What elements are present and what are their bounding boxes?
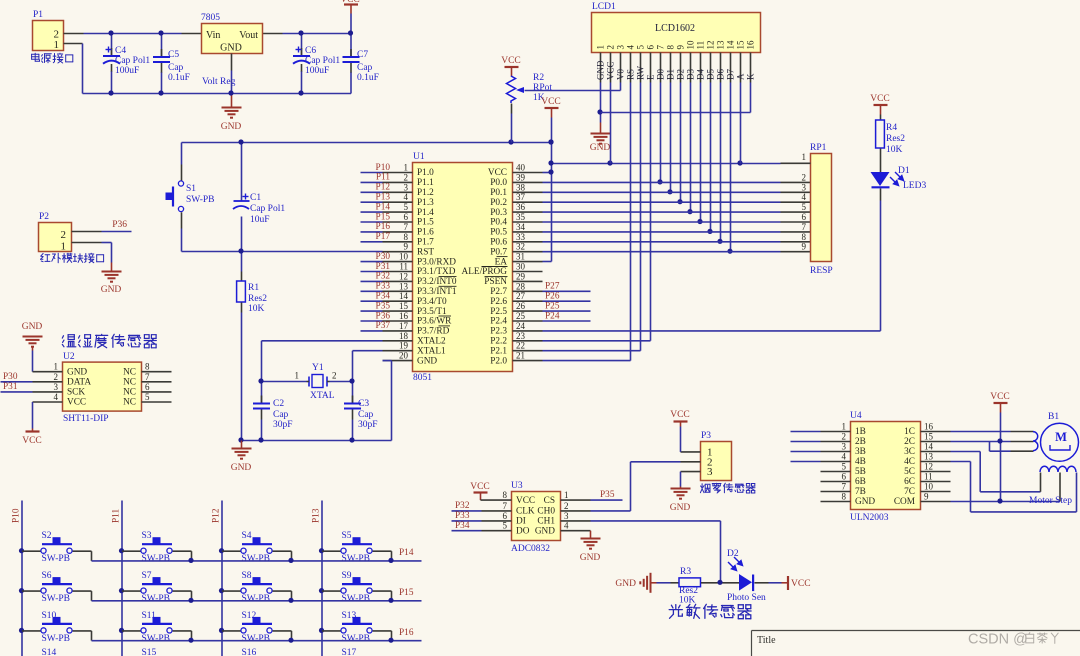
svg-text:P27: P27 (545, 282, 560, 292)
svg-text:5: 5 (802, 202, 807, 212)
svg-text:S1: S1 (186, 184, 196, 194)
svg-text:D0: D0 (656, 69, 666, 80)
svg-text:P2.1: P2.1 (490, 346, 507, 356)
svg-text:P2.3: P2.3 (490, 327, 507, 337)
svg-text:ULN2003: ULN2003 (850, 513, 889, 523)
svg-text:LCD1: LCD1 (592, 2, 616, 12)
svg-text:D1: D1 (898, 166, 910, 176)
svg-text:P30: P30 (3, 372, 18, 382)
svg-text:10: 10 (399, 252, 409, 262)
svg-text:P1.0: P1.0 (417, 168, 434, 178)
svg-text:P10: P10 (376, 163, 391, 173)
svg-text:DO: DO (516, 526, 530, 536)
svg-text:2C: 2C (904, 437, 915, 447)
svg-text:U4: U4 (850, 411, 862, 421)
svg-text:SW-PB: SW-PB (242, 594, 271, 604)
svg-text:P2.7: P2.7 (490, 287, 507, 297)
svg-text:C4: C4 (115, 46, 126, 56)
svg-text:37: 37 (516, 192, 526, 202)
svg-text:P34: P34 (455, 521, 470, 531)
svg-text:Cap: Cap (273, 410, 289, 420)
svg-text:P1.7: P1.7 (417, 238, 434, 248)
svg-text:P3.7/RD: P3.7/RD (417, 327, 450, 337)
svg-text:P2: P2 (39, 212, 49, 222)
svg-text:20: 20 (399, 351, 409, 361)
svg-text:10: 10 (685, 40, 695, 50)
svg-text:P10: P10 (12, 508, 22, 523)
svg-text:P1.5: P1.5 (417, 218, 434, 228)
svg-text:P13: P13 (376, 193, 391, 203)
svg-text:SW-PB: SW-PB (42, 634, 71, 644)
svg-text:Cap Pol1: Cap Pol1 (250, 204, 285, 214)
svg-text:P24: P24 (545, 311, 560, 321)
svg-text:3: 3 (842, 442, 847, 452)
svg-text:1: 1 (595, 45, 605, 50)
svg-text:D2: D2 (676, 69, 686, 80)
svg-text:5C: 5C (904, 467, 915, 477)
svg-text:VCC: VCC (470, 482, 490, 492)
svg-text:Res2: Res2 (248, 294, 267, 304)
svg-text:1: 1 (54, 39, 60, 51)
svg-text:P26: P26 (545, 292, 560, 302)
svg-text:P31: P31 (3, 382, 18, 392)
svg-text:P1.4: P1.4 (417, 208, 434, 218)
svg-text:13: 13 (924, 452, 934, 462)
svg-text:GND: GND (22, 322, 43, 332)
svg-text:4B: 4B (855, 457, 866, 467)
svg-text:NC: NC (123, 367, 136, 377)
svg-text:Photo Sen: Photo Sen (727, 593, 766, 603)
svg-text:GND: GND (670, 503, 691, 513)
svg-text:15: 15 (399, 301, 409, 311)
svg-text:P2.2: P2.2 (490, 337, 507, 347)
svg-text:7B: 7B (855, 487, 866, 497)
svg-text:10K: 10K (886, 145, 903, 155)
svg-text:P35: P35 (376, 301, 391, 311)
svg-text:P2.5: P2.5 (490, 307, 507, 317)
svg-text:36: 36 (516, 202, 526, 212)
svg-text:P36: P36 (376, 311, 391, 321)
svg-text:4: 4 (564, 521, 569, 531)
svg-text:K: K (746, 73, 756, 80)
svg-text:P3.6/WR: P3.6/WR (417, 317, 452, 327)
svg-text:28: 28 (516, 281, 526, 291)
svg-text:ALE/PROG: ALE/PROG (462, 267, 508, 277)
svg-text:S14: S14 (42, 648, 57, 656)
svg-text:P2.0: P2.0 (490, 356, 507, 366)
svg-text:7805: 7805 (201, 13, 220, 23)
svg-text:Vin: Vin (206, 30, 220, 41)
svg-text:VCC: VCC (990, 392, 1010, 402)
svg-text:3: 3 (802, 182, 807, 192)
svg-text:19: 19 (399, 341, 409, 351)
svg-text:VCC: VCC (488, 168, 507, 178)
svg-text:26: 26 (516, 301, 526, 311)
svg-text:LED3: LED3 (903, 181, 926, 191)
svg-text:VCC: VCC (791, 579, 811, 589)
svg-text:P11: P11 (112, 509, 122, 523)
svg-text:P0.0: P0.0 (490, 178, 507, 188)
svg-text:VCC: VCC (670, 410, 690, 420)
svg-text:GND: GND (615, 579, 636, 589)
svg-text:SW-PB: SW-PB (342, 554, 371, 564)
svg-text:7: 7 (145, 372, 150, 382)
svg-text:Volt Reg: Volt Reg (202, 77, 236, 87)
svg-text:S9: S9 (342, 571, 352, 581)
svg-text:7C: 7C (904, 487, 915, 497)
svg-text:2B: 2B (855, 437, 866, 447)
svg-text:30pF: 30pF (273, 420, 293, 430)
svg-text:38: 38 (516, 182, 526, 192)
svg-text:S2: S2 (42, 531, 52, 541)
svg-text:C3: C3 (358, 399, 369, 409)
svg-text:R2: R2 (533, 73, 544, 83)
svg-text:GND: GND (417, 356, 437, 366)
svg-text:VCC: VCC (606, 61, 616, 80)
svg-text:14: 14 (399, 291, 409, 301)
svg-text:18: 18 (399, 331, 409, 341)
svg-text:9: 9 (675, 45, 685, 50)
svg-text:2: 2 (54, 372, 59, 382)
svg-text:RST: RST (417, 247, 434, 257)
svg-text:GND: GND (101, 285, 122, 295)
svg-text:P12: P12 (376, 183, 391, 193)
svg-text:P0.6: P0.6 (490, 238, 507, 248)
svg-text:5B: 5B (855, 467, 866, 477)
svg-text:11: 11 (399, 262, 408, 272)
svg-text:3C: 3C (904, 447, 915, 457)
svg-text:31: 31 (516, 252, 525, 262)
svg-text:2: 2 (61, 229, 67, 241)
svg-text:B1: B1 (1048, 412, 1059, 422)
svg-text:P0.5: P0.5 (490, 228, 507, 238)
svg-text:27: 27 (516, 291, 526, 301)
svg-text:RW: RW (636, 65, 646, 80)
svg-text:Cap: Cap (168, 63, 184, 73)
svg-text:1B: 1B (855, 427, 866, 437)
svg-text:U2: U2 (63, 352, 75, 362)
svg-text:C7: C7 (357, 50, 368, 60)
svg-text:7: 7 (655, 45, 665, 50)
svg-text:13: 13 (399, 281, 409, 291)
svg-text:6: 6 (503, 511, 508, 521)
svg-text:Vout: Vout (239, 30, 258, 41)
svg-text:P17: P17 (376, 232, 391, 242)
svg-text:Title: Title (757, 635, 776, 646)
svg-text:S8: S8 (242, 571, 252, 581)
svg-text:2: 2 (842, 432, 847, 442)
svg-text:C6: C6 (305, 46, 316, 56)
svg-text:SCK: SCK (67, 388, 85, 398)
svg-text:9: 9 (404, 242, 409, 252)
svg-text:SW-PB: SW-PB (342, 594, 371, 604)
svg-text:8: 8 (404, 232, 409, 242)
svg-text:NC: NC (123, 388, 136, 398)
svg-text:P14: P14 (376, 202, 391, 212)
svg-text:8: 8 (665, 45, 675, 50)
svg-text:GND: GND (231, 463, 252, 473)
svg-text:C2: C2 (273, 399, 284, 409)
svg-text:6: 6 (802, 212, 807, 222)
svg-text:P3.0/RXD: P3.0/RXD (417, 257, 456, 267)
svg-text:SW-PB: SW-PB (242, 554, 271, 564)
svg-text:1: 1 (295, 371, 300, 381)
svg-text:P0.2: P0.2 (490, 198, 507, 208)
svg-text:7: 7 (503, 501, 508, 511)
svg-text:V0: V0 (616, 69, 626, 80)
svg-text:22: 22 (516, 341, 525, 351)
svg-text:39: 39 (516, 172, 526, 182)
svg-text:P31: P31 (376, 262, 391, 272)
svg-text:P1: P1 (33, 10, 43, 20)
svg-text:25: 25 (516, 311, 526, 321)
svg-text:CLK: CLK (516, 507, 535, 517)
svg-text:R1: R1 (248, 283, 259, 293)
svg-text:SW-PB: SW-PB (42, 554, 71, 564)
svg-text:P3.2/INT0: P3.2/INT0 (417, 277, 457, 287)
svg-text:DI: DI (516, 517, 526, 527)
svg-text:NC: NC (123, 398, 136, 408)
svg-text:3: 3 (564, 511, 569, 521)
svg-text:SW-PB: SW-PB (142, 554, 171, 564)
svg-text:CH0: CH0 (537, 507, 555, 517)
svg-text:RP1: RP1 (810, 143, 827, 153)
svg-text:14: 14 (924, 442, 934, 452)
svg-text:10K: 10K (248, 304, 265, 314)
svg-text:E: E (646, 74, 656, 80)
svg-text:30pF: 30pF (358, 420, 378, 430)
svg-text:GND: GND (221, 122, 242, 132)
svg-text:8051: 8051 (413, 373, 432, 383)
svg-text:4: 4 (404, 192, 409, 202)
svg-text:P3.3/INT1: P3.3/INT1 (417, 287, 457, 297)
svg-text:GND: GND (67, 367, 87, 377)
svg-text:23: 23 (516, 331, 526, 341)
svg-text:6: 6 (645, 45, 655, 50)
svg-text:29: 29 (516, 271, 526, 281)
svg-text:U3: U3 (511, 481, 523, 491)
svg-text:12: 12 (705, 41, 715, 50)
svg-text:VCC: VCC (870, 94, 890, 104)
svg-text:RS: RS (626, 69, 636, 80)
svg-text:3B: 3B (855, 447, 866, 457)
svg-text:8: 8 (503, 490, 508, 500)
svg-text:P35: P35 (600, 490, 615, 500)
svg-text:D5: D5 (706, 69, 716, 80)
svg-text:RESP: RESP (810, 266, 833, 276)
svg-text:5: 5 (145, 392, 150, 402)
svg-text:P3: P3 (701, 431, 711, 441)
svg-text:P0.3: P0.3 (490, 208, 507, 218)
svg-text:P37: P37 (376, 321, 391, 331)
svg-text:M: M (1055, 430, 1067, 444)
svg-text:P2.6: P2.6 (490, 297, 507, 307)
svg-text:24: 24 (516, 321, 526, 331)
svg-text:VCC: VCC (541, 97, 561, 107)
svg-text:2: 2 (605, 45, 615, 50)
svg-text:Res2: Res2 (679, 586, 698, 596)
svg-text:4: 4 (625, 45, 635, 50)
svg-text:12: 12 (924, 462, 933, 472)
svg-text:D7: D7 (726, 69, 736, 80)
svg-text:34: 34 (516, 222, 526, 232)
svg-text:VCC: VCC (67, 398, 86, 408)
svg-text:10uF: 10uF (250, 215, 270, 225)
svg-text:NC: NC (123, 378, 136, 388)
svg-text:P30: P30 (376, 252, 391, 262)
svg-text:4: 4 (54, 392, 59, 402)
svg-text:GND: GND (590, 143, 611, 153)
svg-text:P3.5/T1: P3.5/T1 (417, 307, 447, 317)
svg-text:Cap Pol1: Cap Pol1 (305, 56, 340, 66)
svg-text:6: 6 (404, 212, 409, 222)
svg-text:COM: COM (894, 497, 915, 507)
svg-text:3: 3 (707, 466, 713, 478)
svg-text:XTAL: XTAL (310, 391, 335, 401)
svg-text:S3: S3 (142, 531, 152, 541)
svg-text:P34: P34 (376, 292, 391, 302)
svg-text:P1.3: P1.3 (417, 198, 434, 208)
svg-text:P14: P14 (399, 548, 414, 558)
svg-text:S6: S6 (42, 571, 52, 581)
svg-text:5: 5 (404, 202, 409, 212)
svg-text:D2: D2 (727, 549, 739, 559)
svg-text:33: 33 (516, 232, 526, 242)
svg-text:P2.4: P2.4 (490, 317, 507, 327)
svg-text:S17: S17 (342, 648, 357, 656)
svg-text:7: 7 (842, 482, 847, 492)
svg-text:GND: GND (580, 553, 601, 563)
svg-text:16: 16 (399, 311, 409, 321)
svg-text:S7: S7 (142, 571, 152, 581)
svg-text:P25: P25 (545, 301, 560, 311)
svg-text:1: 1 (802, 152, 807, 162)
svg-text:P3.1/TXD: P3.1/TXD (417, 267, 456, 277)
svg-text:4: 4 (842, 452, 847, 462)
svg-text:12: 12 (399, 271, 408, 281)
svg-text:4: 4 (802, 192, 807, 202)
svg-text:1: 1 (54, 362, 59, 372)
svg-text:P0.1: P0.1 (490, 188, 507, 198)
svg-text:P3.4/T0: P3.4/T0 (417, 297, 447, 307)
svg-text:P15: P15 (376, 212, 391, 222)
svg-text:6: 6 (842, 472, 847, 482)
svg-text:C1: C1 (250, 193, 261, 203)
svg-text:6B: 6B (855, 477, 866, 487)
svg-text:3: 3 (615, 45, 625, 50)
svg-text:D6: D6 (716, 69, 726, 80)
svg-text:13: 13 (715, 40, 725, 50)
svg-text:2: 2 (332, 371, 337, 381)
svg-text:1: 1 (564, 490, 569, 500)
svg-text:1: 1 (404, 163, 409, 173)
svg-text:D4: D4 (696, 69, 706, 80)
svg-text:S5: S5 (342, 531, 352, 541)
svg-text:P13: P13 (312, 508, 322, 523)
svg-text:10K: 10K (679, 596, 696, 606)
svg-text:D1: D1 (666, 69, 676, 80)
svg-text:0.1uF: 0.1uF (357, 73, 379, 83)
svg-text:100uF: 100uF (305, 66, 329, 76)
svg-text:5: 5 (503, 521, 508, 531)
svg-text:SW-PB: SW-PB (142, 634, 171, 644)
svg-text:11: 11 (924, 472, 933, 482)
svg-text:7: 7 (802, 222, 807, 232)
svg-text:SW-PB: SW-PB (342, 634, 371, 644)
svg-text:P16: P16 (376, 222, 391, 232)
svg-text:8: 8 (802, 232, 807, 242)
svg-text:Cap Pol1: Cap Pol1 (115, 56, 150, 66)
svg-text:P1.6: P1.6 (417, 228, 434, 238)
svg-text:P0.7: P0.7 (490, 247, 507, 257)
svg-text:VCC: VCC (516, 496, 535, 506)
svg-text:SHT11-DIP: SHT11-DIP (63, 414, 109, 424)
svg-text:2: 2 (802, 172, 807, 182)
svg-text:5: 5 (635, 45, 645, 50)
svg-text:35: 35 (516, 212, 526, 222)
svg-text:15: 15 (924, 432, 934, 442)
svg-text:8: 8 (145, 362, 150, 372)
svg-text:P32: P32 (455, 501, 470, 511)
svg-text:4C: 4C (904, 457, 915, 467)
svg-text:30: 30 (516, 262, 526, 272)
svg-text:P16: P16 (399, 628, 414, 638)
svg-text:10: 10 (924, 482, 934, 492)
svg-text:21: 21 (516, 351, 525, 361)
svg-text:5: 5 (842, 462, 847, 472)
svg-text:6: 6 (145, 382, 150, 392)
svg-text:SW-PB: SW-PB (142, 594, 171, 604)
svg-text:P32: P32 (376, 272, 391, 282)
svg-text:16: 16 (745, 40, 755, 50)
svg-text:P36: P36 (112, 220, 127, 230)
svg-text:1C: 1C (904, 427, 915, 437)
svg-text:2: 2 (564, 501, 569, 511)
svg-text:P0.4: P0.4 (490, 218, 507, 228)
svg-text:11: 11 (695, 41, 705, 50)
svg-text:CS: CS (544, 496, 555, 506)
svg-text:7: 7 (404, 222, 409, 232)
svg-text:32: 32 (516, 242, 525, 252)
svg-text:P11: P11 (376, 173, 390, 183)
svg-text:ADC0832: ADC0832 (511, 544, 550, 554)
svg-text:LCD1602: LCD1602 (655, 23, 695, 34)
svg-text:2: 2 (404, 172, 409, 182)
svg-text:8: 8 (842, 492, 847, 502)
svg-text:14: 14 (725, 40, 735, 50)
svg-text:R3: R3 (680, 567, 691, 577)
svg-text:PSEN: PSEN (484, 277, 507, 287)
svg-text:3: 3 (404, 182, 409, 192)
svg-text:R4: R4 (886, 123, 897, 133)
svg-text:P33: P33 (455, 511, 470, 521)
svg-text:P12: P12 (212, 508, 222, 523)
svg-text:C5: C5 (168, 50, 179, 60)
svg-text:Motor Step: Motor Step (1029, 496, 1072, 506)
svg-text:P15: P15 (399, 588, 414, 598)
svg-text:6C: 6C (904, 477, 915, 487)
svg-text:GND: GND (535, 526, 555, 536)
svg-text:GND: GND (855, 497, 875, 507)
svg-text:16: 16 (924, 422, 934, 432)
svg-text:CSDN @: CSDN @ (968, 632, 1028, 648)
svg-text:CH1: CH1 (537, 517, 555, 527)
svg-text:9: 9 (924, 492, 929, 502)
svg-text:S16: S16 (242, 648, 257, 656)
svg-text:1: 1 (842, 422, 847, 432)
svg-text:S4: S4 (242, 531, 252, 541)
svg-text:Res2: Res2 (886, 134, 905, 144)
